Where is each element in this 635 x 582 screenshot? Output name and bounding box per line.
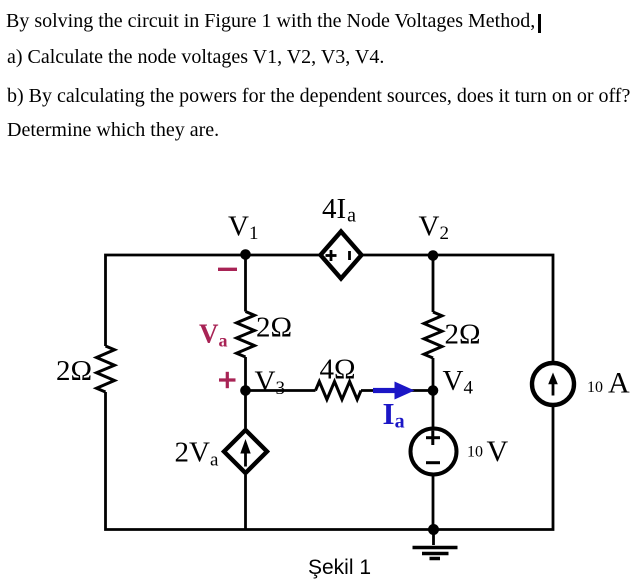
- svg-text:A: A: [608, 367, 630, 400]
- svg-text:V4: V4: [443, 365, 474, 399]
- svg-text:2Ω: 2Ω: [56, 355, 92, 387]
- svg-text:10: 10: [467, 443, 483, 460]
- svg-text:4Ia: 4Ia: [322, 193, 356, 227]
- svg-text:2Ω: 2Ω: [256, 312, 292, 344]
- svg-text:Va: Va: [199, 318, 228, 350]
- svg-text:4Ω: 4Ω: [320, 354, 356, 386]
- svg-text:Şekil 1: Şekil 1: [308, 556, 371, 579]
- svg-text:Ia: Ia: [383, 396, 405, 433]
- svg-text:10: 10: [587, 379, 603, 396]
- svg-text:V1: V1: [228, 211, 258, 245]
- svg-text:2Va: 2Va: [175, 436, 219, 470]
- svg-text:V3: V3: [255, 366, 285, 400]
- svg-text:V2: V2: [419, 211, 449, 245]
- svg-text:V: V: [487, 435, 509, 468]
- svg-text:2Ω: 2Ω: [445, 319, 481, 351]
